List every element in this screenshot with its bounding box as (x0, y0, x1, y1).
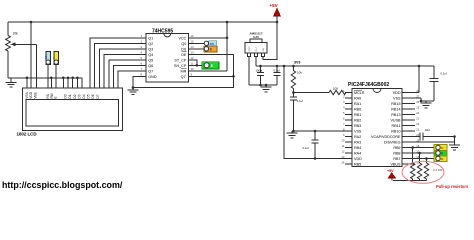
svg-text:RB5: RB5 (354, 163, 361, 167)
svg-text:3 X 10k: 3 X 10k (433, 168, 443, 172)
svg-text:0.1uf: 0.1uf (274, 68, 280, 72)
svg-text:11: 11 (342, 144, 345, 148)
svg-text:22: 22 (416, 122, 420, 126)
ground (DISVREG) (449, 143, 460, 150)
wire VSS row to PIC pin8 (293, 130, 347, 132)
svg-text:26: 26 (416, 100, 420, 104)
svg-text:24: 24 (416, 111, 420, 115)
svg-text:VDD: VDD (29, 91, 33, 98)
svg-text:MR: MR (181, 69, 187, 73)
node D0 (62, 77, 65, 80)
svg-text:http://ccspicc.blogspot.com/: http://ccspicc.blogspot.com/ (2, 180, 123, 190)
OE overline (182, 51, 187, 53)
svg-text:E: E (52, 57, 56, 59)
svg-text:21: 21 (416, 127, 420, 131)
wire DS to D terminal (189, 48, 205, 50)
svg-text:0.1uf: 0.1uf (297, 99, 303, 103)
svg-text:RA1: RA1 (354, 102, 361, 106)
svg-text:3V3: 3V3 (294, 61, 300, 65)
svg-text:D1: D1 (68, 94, 72, 98)
wire regulator GND down (248, 56, 250, 85)
svg-text:VSS: VSS (354, 130, 362, 134)
svg-text:VUSB: VUSB (390, 119, 401, 123)
wire Q2 to LCD data (95, 43, 147, 88)
capacitor 0.1uf (VDD decoupling) (303, 131, 319, 159)
PIC notch (373, 89, 381, 93)
svg-text:VSS: VSS (393, 97, 401, 101)
ground (PIC VSS27) (421, 101, 432, 108)
wire RB9 to D terminal (402, 147, 436, 149)
node cap1 (259, 65, 262, 68)
svg-text:RB15: RB15 (391, 102, 400, 106)
svg-text:RB13: RB13 (391, 113, 400, 117)
svg-text:RA4: RA4 (354, 152, 361, 156)
terminal D (to DS) (204, 46, 217, 52)
+5V power symbol (pullups) (387, 169, 395, 181)
wire OE to ground (133, 54, 234, 87)
svg-text:GND: GND (249, 46, 251, 51)
svg-text:RA0: RA0 (354, 97, 361, 101)
wire RB8 to E terminal (402, 152, 436, 154)
svg-text:VDD: VDD (354, 157, 362, 161)
capacitor 0.1uf (MCLR) (290, 93, 303, 132)
svg-text:10uf: 10uf (425, 128, 430, 132)
74HC595 pin names and numbers (141, 34, 195, 79)
wire regulator ground row (249, 84, 277, 86)
svg-text:Pull-up resistors: Pull-up resistors (436, 184, 469, 189)
terminal RS (to LCD) (44, 52, 51, 88)
wire Q4 to LCD data (104, 54, 146, 88)
node VSS row (292, 130, 295, 133)
wire RB7 to R terminal (402, 158, 436, 160)
svg-text:VCAP/VDDCORE: VCAP/VDDCORE (371, 135, 401, 139)
svg-text:RB8: RB8 (393, 152, 400, 156)
node MCLR (292, 91, 295, 94)
capacitor 10uf (VCAP) (402, 128, 455, 141)
MCLR overline (354, 89, 362, 91)
resistor pullup 10k (1) (411, 148, 415, 181)
wire regulator OUT to 3V3 rail (255, 56, 257, 66)
svg-text:Q4: Q4 (148, 53, 153, 57)
svg-text:1602 LCD: 1602 LCD (17, 131, 37, 136)
svg-text:RB7: RB7 (393, 157, 400, 161)
node pullup1 (411, 146, 414, 149)
wire PIC VDD28 to 3V3 (415, 92, 419, 94)
svg-text:+5V: +5V (270, 3, 278, 8)
node pullup2 (418, 152, 421, 155)
node SH_CP junction (196, 64, 199, 67)
svg-text:D0: D0 (64, 94, 68, 98)
ground (PIC VSS) (287, 131, 298, 138)
wire Q0 to RS terminal (189, 42, 205, 44)
wire Q1 to LCD data (90, 38, 146, 88)
svg-text:OE: OE (181, 53, 187, 57)
svg-text:100: 100 (333, 86, 338, 90)
svg-text:+5V: +5V (387, 169, 394, 173)
74HC595 notch (164, 34, 171, 37)
pot wiper arrow (11, 42, 37, 46)
svg-text:0.1uf: 0.1uf (303, 146, 309, 150)
wire Q5 to LCD data (109, 60, 146, 88)
wire SH_CP to E terminal (189, 64, 205, 66)
wire RW drop (50, 78, 52, 88)
svg-text:RB1: RB1 (354, 113, 361, 117)
svg-text:OUT: OUT (256, 46, 258, 51)
svg-text:Q7: Q7 (148, 69, 153, 73)
svg-text:RB10: RB10 (391, 130, 400, 134)
resistor 10k (MCLR pullup) (291, 66, 302, 93)
terminal E (to SH_CP) (202, 62, 219, 69)
svg-text:RB0: RB0 (354, 108, 361, 112)
node +5V entry (276, 21, 279, 24)
+5V power symbol (270, 3, 281, 22)
svg-text:10k: 10k (13, 32, 19, 36)
svg-text:10: 10 (341, 138, 345, 142)
node MCLR pullup branch (292, 65, 295, 68)
wire +5V drop to VCC/MR (226, 22, 228, 71)
terminal E (to LCD) (52, 52, 59, 88)
svg-text:RB3: RB3 (354, 124, 361, 128)
LCD pin labels (25, 91, 100, 98)
resistor pullup 10k (2) (417, 153, 421, 181)
terminal block D/E/R (434, 145, 447, 162)
node decoupling cap top (314, 130, 317, 133)
LCD screen (26, 100, 119, 127)
svg-text:Q0: Q0 (181, 42, 186, 46)
ground (74HC595) (128, 88, 139, 95)
wire GND pin to ground (133, 76, 146, 87)
capacitor 100uf (256, 66, 265, 85)
node RW (50, 77, 53, 80)
wire Q7' to OE net (189, 75, 234, 77)
svg-text:ST_CP: ST_CP (174, 58, 186, 62)
ground (pot / LCD VSS rail) (6, 78, 17, 87)
wire D3 drop (76, 78, 78, 88)
svg-text:D6: D6 (91, 94, 95, 98)
wire Q6 to LCD data (114, 65, 147, 88)
wire VSS27 to cap/ground (415, 97, 421, 99)
node 595 supply tap (226, 21, 229, 24)
svg-text:VDD: VDD (393, 91, 401, 95)
svg-text:D2: D2 (73, 94, 77, 98)
svg-text:23: 23 (416, 116, 420, 120)
wire VEE from wiper (36, 44, 38, 88)
wire Q3 to LCD data (99, 49, 146, 88)
svg-text:DISVREG: DISVREG (384, 141, 401, 145)
microcontroller PIC24FJ64GB002 (352, 89, 402, 167)
shift register 74HC595 (146, 34, 188, 83)
svg-text:D4: D4 (82, 94, 86, 98)
wire Q7 to LCD data (118, 71, 146, 88)
svg-text:RB4: RB4 (354, 146, 361, 150)
wire 3V3 to PIC VDD pin13 (284, 66, 348, 159)
potentiometer 10k (LCD contrast) (6, 22, 18, 78)
svg-text:Q2: Q2 (148, 42, 153, 46)
svg-text:RB11: RB11 (392, 124, 401, 128)
terminal RS (from Q0) (204, 41, 217, 46)
resistor 100 (MCLR series) (293, 86, 352, 94)
wire VCC to +5V (189, 37, 228, 39)
node VDD tap (30, 21, 33, 24)
wire ground rail to LCD (8, 78, 82, 88)
svg-text:D7: D7 (96, 94, 100, 98)
wire MR to +5V (189, 70, 228, 72)
node VDD branch (283, 65, 286, 68)
wire VSS drop (26, 78, 28, 88)
wire 3V3 rail (256, 65, 434, 67)
svg-text:74HC595: 74HC595 (152, 28, 173, 34)
svg-text:RA2: RA2 (354, 135, 361, 139)
wire regulator VIN to +5V (263, 22, 277, 60)
wire +5V top rail (8, 21, 277, 23)
svg-text:MCLR: MCLR (354, 91, 365, 95)
svg-text:0.1uf: 0.1uf (441, 72, 447, 76)
svg-text:Q7': Q7' (181, 75, 187, 79)
svg-text:VBUS: VBUS (390, 163, 401, 167)
svg-text:Q3: Q3 (148, 47, 153, 51)
svg-text:Q5: Q5 (148, 58, 153, 62)
svg-text:RB2: RB2 (354, 119, 361, 123)
svg-text:Q1: Q1 (148, 36, 153, 40)
wire D2 drop (72, 78, 74, 88)
node D1 (67, 77, 70, 80)
svg-text:14: 14 (341, 160, 345, 164)
wire VDD drop from +5V (30, 22, 32, 88)
node pullup3 (425, 157, 428, 160)
svg-text:RS: RS (44, 55, 48, 59)
svg-text:VCC: VCC (179, 36, 187, 40)
wire pullup bottom row (393, 180, 427, 182)
annotation ellipse (402, 161, 444, 183)
node VSS (26, 77, 29, 80)
svg-text:SH_CP: SH_CP (174, 64, 187, 68)
LCD module 1602 (22, 88, 122, 131)
node VCAP/DISVREG (453, 135, 456, 138)
svg-text:RB14: RB14 (391, 108, 400, 112)
node D2 (71, 77, 74, 80)
node D3 (76, 77, 79, 80)
svg-text:E: E (441, 152, 443, 156)
node cap2 (276, 65, 279, 68)
node PIC VDD28 branch (418, 65, 421, 68)
wire D0 drop (62, 78, 64, 88)
svg-text:25: 25 (416, 105, 420, 109)
svg-text:PIC24FJ64GB002: PIC24FJ64GB002 (348, 82, 389, 88)
svg-text:RB9: RB9 (393, 146, 400, 150)
regulator AMS1117 3.3V (245, 32, 267, 57)
ground (regulator) (261, 85, 272, 92)
node 595 ground (132, 86, 135, 89)
svg-text:GND: GND (148, 75, 157, 79)
svg-text:100uf: 100uf (256, 68, 263, 72)
capacitor 0.1uf (PIC VDD28) (421, 66, 447, 101)
svg-text:13: 13 (341, 155, 345, 159)
wire ST_CP tie (189, 60, 197, 66)
resistor pullup 10k (3) (424, 159, 428, 181)
svg-text:E: E (54, 96, 58, 98)
svg-text:VEE: VEE (34, 92, 38, 98)
MR overline (181, 67, 186, 69)
PIC pins, names and numbers (341, 89, 419, 167)
svg-text:Q6: Q6 (148, 64, 153, 68)
svg-text:D3: D3 (77, 94, 81, 98)
svg-text:12: 12 (341, 149, 345, 153)
wire D1 drop (67, 78, 69, 88)
capacitor 0.1uf (regulator out) (274, 66, 281, 85)
svg-text:RS: RS (210, 42, 214, 46)
node VDD row (314, 157, 317, 160)
svg-text:DS: DS (181, 47, 187, 51)
svg-text:RA3: RA3 (354, 141, 361, 145)
svg-text:10k: 10k (297, 71, 302, 75)
svg-text:VIN: VIN (263, 47, 265, 51)
svg-text:D5: D5 (87, 94, 91, 98)
wire DISVREG to ground (402, 141, 455, 143)
